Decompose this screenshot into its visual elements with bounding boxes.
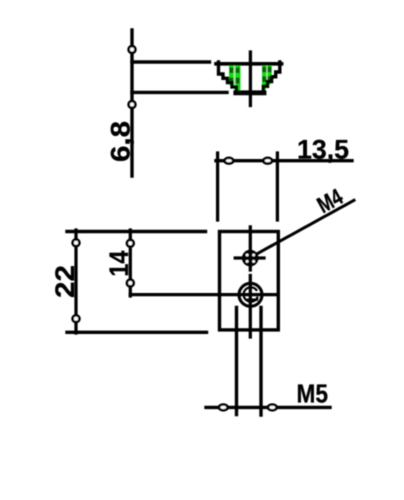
svg-text:14: 14 (104, 251, 134, 277)
svg-text:22: 22 (50, 265, 80, 298)
svg-text:6,8: 6,8 (105, 121, 135, 162)
svg-text:M4: M4 (313, 183, 348, 218)
svg-text:13,5: 13,5 (297, 135, 349, 165)
svg-text:M5: M5 (297, 379, 329, 409)
